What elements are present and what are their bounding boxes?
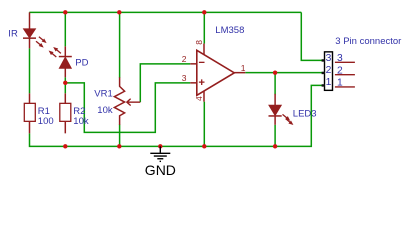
svg-text:1: 1 <box>241 63 246 73</box>
svg-text:PD: PD <box>75 57 88 68</box>
resistor R1 <box>24 93 35 133</box>
diode PD (photodiode) <box>49 46 72 77</box>
node ground at VR1 <box>117 144 121 148</box>
wire op-amp pin 8 from VCC <box>203 12 205 43</box>
svg-text:VR1: VR1 <box>94 88 112 99</box>
node VCC at VR1 <box>117 10 121 14</box>
svg-text:IR: IR <box>8 28 18 39</box>
wire VCC to connector pin 3 <box>301 12 324 60</box>
diode IR (infrared LED) <box>23 12 47 48</box>
wire op-amp output to connector pin 2 <box>245 72 324 74</box>
wire node PD junction to op-amp pin 3 <box>65 83 190 133</box>
op-amp U1 LM358 <box>190 44 245 102</box>
svg-text:3: 3 <box>182 73 187 83</box>
svg-text:2: 2 <box>182 54 187 64</box>
node VCC at pin 8 <box>202 10 206 14</box>
svg-text:1: 1 <box>337 78 343 89</box>
resistor R2 <box>60 93 71 133</box>
svg-text:LM358: LM358 <box>215 25 244 36</box>
diode LED3 <box>269 94 294 125</box>
wire PD anode to R2 <box>64 77 66 93</box>
node ground at R2 <box>63 144 67 148</box>
svg-text:10k: 10k <box>73 116 89 127</box>
svg-text:4: 4 <box>194 96 204 101</box>
wire output junction to LED3 <box>274 73 276 95</box>
potentiometer VR1 <box>114 77 140 125</box>
node ground at LED3 <box>273 144 277 148</box>
svg-text:100: 100 <box>38 116 54 127</box>
net stub 1 <box>335 86 355 88</box>
node ground at GND tap <box>158 144 162 148</box>
node PD/R2 junction <box>63 81 67 85</box>
svg-text:LED3: LED3 <box>293 108 317 119</box>
wire op-amp pin 4 to ground bus <box>203 102 205 147</box>
ground symbol <box>150 146 170 161</box>
wire LED3 cathode to ground bus <box>274 125 276 147</box>
net stub 3 <box>335 61 355 63</box>
wire VR1 top from VCC <box>119 12 121 78</box>
svg-text:GND: GND <box>145 162 176 178</box>
svg-text:10k: 10k <box>97 105 113 116</box>
node output junction <box>273 70 277 74</box>
wire VCC top bus <box>29 11 301 13</box>
svg-text:2: 2 <box>326 65 332 76</box>
wire VR1 bottom to ground bus <box>119 124 121 146</box>
connector J1 3 Pin <box>322 52 333 91</box>
svg-text:1: 1 <box>326 77 332 88</box>
svg-text:3 Pin connector: 3 Pin connector <box>335 36 401 47</box>
wire IR cathode to R1 <box>29 48 31 93</box>
node ground at pin 4 <box>202 144 206 148</box>
net stub 2 <box>335 74 355 76</box>
node VCC at PD <box>63 10 67 14</box>
svg-text:8: 8 <box>194 40 204 45</box>
svg-text:3: 3 <box>337 53 343 64</box>
wire VR1 wiper to op-amp pin 2 <box>140 64 190 102</box>
svg-text:3: 3 <box>326 53 332 64</box>
wire PD cathode from VCC <box>64 12 66 46</box>
wire ground bus <box>30 85 325 146</box>
svg-text:2: 2 <box>337 65 343 76</box>
